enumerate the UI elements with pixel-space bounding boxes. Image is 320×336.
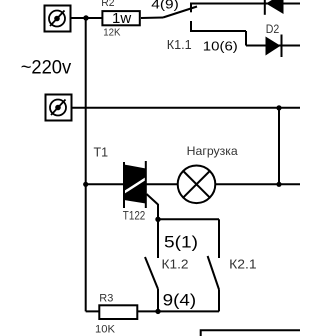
svg-text:R3: R3 xyxy=(99,293,113,305)
svg-text:5(1): 5(1) xyxy=(164,234,198,252)
svg-text:К2.1: К2.1 xyxy=(229,256,257,271)
svg-text:R2: R2 xyxy=(101,0,114,9)
svg-text:10(6): 10(6) xyxy=(203,39,238,54)
svg-text:К1.2: К1.2 xyxy=(162,256,189,271)
svg-text:1w: 1w xyxy=(112,10,131,27)
svg-text:Нагрузка: Нагрузка xyxy=(187,144,238,158)
svg-text:4(9): 4(9) xyxy=(151,0,179,12)
svg-text:Т1: Т1 xyxy=(94,146,109,160)
svg-text:~220v: ~220v xyxy=(21,58,72,79)
svg-text:К1.1: К1.1 xyxy=(167,37,192,52)
svg-text:12K: 12K xyxy=(103,27,120,39)
svg-text:Т122: Т122 xyxy=(123,208,146,222)
svg-text:9(4): 9(4) xyxy=(163,291,197,309)
svg-text:D2: D2 xyxy=(266,22,280,36)
svg-text:10K: 10K xyxy=(95,324,116,336)
